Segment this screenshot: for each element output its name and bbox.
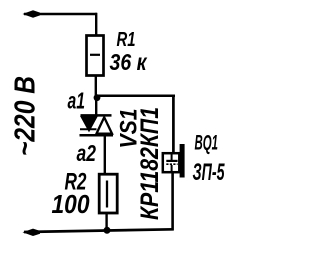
svg-text:КР1182КП1: КР1182КП1 xyxy=(136,107,164,220)
svg-text:ВQ1: ВQ1 xyxy=(195,132,219,155)
svg-text:R1: R1 xyxy=(117,29,136,51)
svg-text:36 к: 36 к xyxy=(110,49,148,75)
svg-text:а2: а2 xyxy=(77,140,97,166)
svg-text:ЗП-5: ЗП-5 xyxy=(193,159,225,186)
svg-text:а1: а1 xyxy=(68,88,86,114)
svg-text:100: 100 xyxy=(52,189,90,219)
svg-text:~220 В: ~220 В xyxy=(10,76,42,156)
